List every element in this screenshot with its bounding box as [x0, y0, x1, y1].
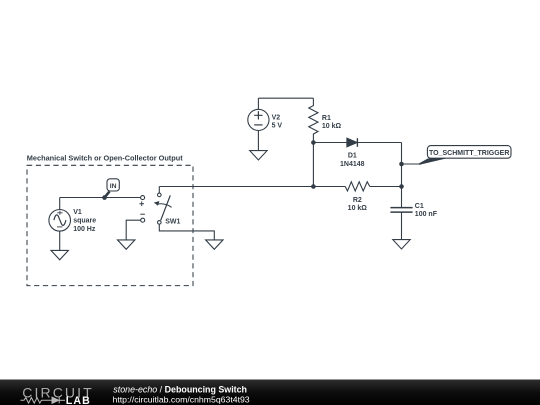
resistor R2 [345, 182, 370, 191]
wire to schmitt label [402, 163, 422, 165]
svg-text:C1: C1 [415, 203, 424, 210]
svg-text:R2: R2 [353, 197, 362, 204]
label + [139, 201, 144, 206]
svg-text:TO_SCHMITT_TRIGGER: TO_SCHMITT_TRIGGER [429, 150, 509, 157]
svg-text:V1: V1 [73, 209, 82, 216]
node schmitt junction [399, 162, 404, 167]
wire diode anode [313, 142, 347, 144]
label - [140, 213, 145, 215]
svg-text:Mechanical Switch or Open-Coll: Mechanical Switch or Open-Collector Outp… [27, 154, 183, 163]
svg-text:square: square [73, 218, 96, 225]
flag TO_SCHMITT_TRIGGER [419, 146, 511, 165]
svg-text:http://circuitlab.com/cnhm5q63: http://circuitlab.com/cnhm5q63t4t93 [113, 395, 250, 405]
capacitor C1 [390, 208, 412, 240]
wire top net [258, 97, 313, 99]
logo circuit glyph [21, 397, 66, 403]
svg-text:R1: R1 [322, 115, 331, 122]
ground (C1) [393, 240, 410, 249]
wire minus terminal to ground [126, 220, 141, 240]
ground (minus terminal) [118, 240, 135, 249]
terminal + [141, 196, 145, 200]
svg-text:LAB: LAB [66, 395, 91, 405]
svg-text:SW1: SW1 [165, 218, 180, 225]
svg-text:stone-echo / Debouncing Switch: stone-echo / Debouncing Switch [113, 385, 247, 395]
dashed enclosure box [27, 165, 193, 285]
voltage source V1 [49, 198, 71, 251]
terminal - [141, 218, 145, 222]
flag IN [105, 179, 120, 198]
diode D1 [347, 138, 402, 147]
node junction long net [311, 184, 316, 189]
ground (V2) [250, 151, 267, 160]
ground (V1) [51, 250, 68, 259]
resistor R1 [309, 98, 318, 142]
svg-text:5 V: 5 V [272, 123, 283, 130]
voltage source V2 [248, 98, 269, 150]
svg-text:10 kΩ: 10 kΩ [322, 123, 342, 130]
wire vertical right x=401.5 [401, 143, 403, 208]
switch SW1 [154, 187, 215, 240]
wire V1 top to plus terminal [60, 197, 141, 199]
node R2/C1 junction [399, 184, 404, 189]
svg-text:V2: V2 [272, 114, 281, 121]
wire long net at y=186.5 [159, 186, 401, 188]
svg-text:D1: D1 [348, 153, 357, 160]
ground (SW1) [206, 240, 223, 249]
wire vertical between nodes x=313.4 [312, 143, 314, 187]
node IN junction [102, 195, 107, 200]
svg-text:IN: IN [110, 183, 117, 190]
svg-text:100 Hz: 100 Hz [73, 226, 96, 233]
svg-text:10 kΩ: 10 kΩ [348, 205, 368, 212]
svg-text:100 nF: 100 nF [415, 211, 438, 218]
svg-text:1N4148: 1N4148 [340, 161, 365, 168]
node R1 bottom [311, 140, 316, 145]
